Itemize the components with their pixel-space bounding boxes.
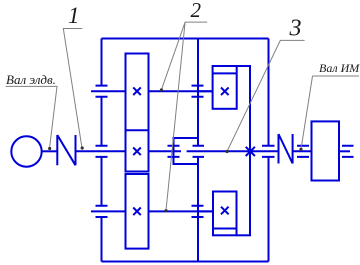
svg-text:3: 3 — [289, 16, 302, 42]
svg-text:Вал ИМ: Вал ИМ — [319, 61, 360, 75]
svg-text:1: 1 — [68, 3, 80, 28]
svg-text:Вал элдв.: Вал элдв. — [6, 72, 56, 87]
svg-text:2: 2 — [191, 0, 202, 22]
